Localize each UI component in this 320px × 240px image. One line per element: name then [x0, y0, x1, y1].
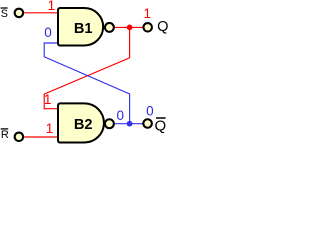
svg-text:Q: Q [157, 19, 168, 35]
svg-text:B1: B1 [74, 21, 93, 37]
svg-text:B2: B2 [74, 117, 93, 133]
svg-text:0: 0 [44, 25, 52, 40]
svg-text:R: R [1, 129, 9, 141]
svg-text:1: 1 [46, 121, 54, 136]
svg-text:1: 1 [44, 92, 52, 107]
svg-text:1: 1 [143, 6, 151, 21]
svg-text:1: 1 [48, 0, 56, 13]
svg-text:S: S [1, 8, 8, 20]
svg-text:0: 0 [117, 108, 125, 123]
svg-text:0: 0 [146, 103, 154, 118]
svg-text:Q: Q [155, 117, 167, 134]
